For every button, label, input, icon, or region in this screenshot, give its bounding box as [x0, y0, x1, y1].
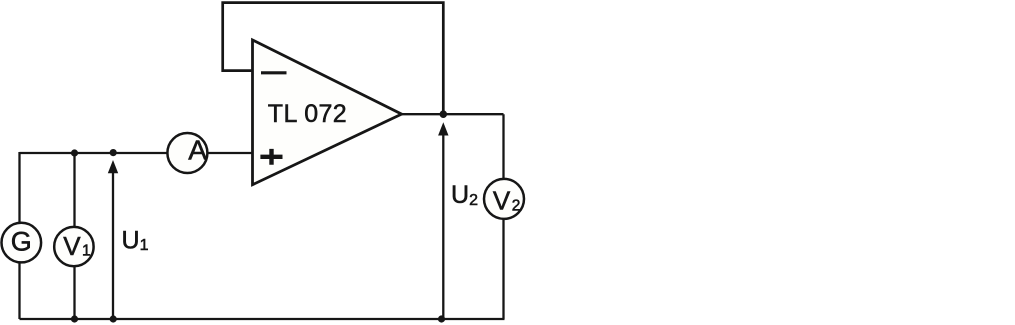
junction node: V1 top — [71, 149, 78, 156]
svg-text:A: A — [188, 135, 207, 166]
voltmeter V1 circle — [54, 227, 93, 266]
ammeter A circle — [167, 133, 207, 173]
wire: non-inverting input rail from left rail to op-amp + input — [20, 152, 253, 154]
junction node: U2 arrow bottom — [438, 315, 445, 322]
generator G circle — [2, 223, 42, 263]
arrow: input voltage U1 indicator — [112, 170, 114, 319]
junction node: V1 bottom — [71, 315, 78, 322]
label: op-amp non-inverting input plus sign — [260, 149, 282, 165]
svg-text:G: G — [11, 227, 32, 257]
wire: feedback loop from output node to inverting input — [223, 3, 444, 114]
wire: voltmeter V1 branch — [73, 153, 75, 319]
junction node: op-amp output — [440, 110, 448, 118]
wire: voltmeter V2 branch vertical — [502, 114, 504, 319]
op-amp U1 TL 072 triangle — [253, 40, 402, 185]
wire: op-amp output to V2 branch — [402, 113, 504, 115]
wire: bottom return rail — [20, 318, 505, 320]
arrow: output voltage U2 indicator — [442, 132, 444, 319]
wire: left vertical branch (generator branch) — [18, 152, 20, 319]
junction node: U1 arrow bottom — [110, 315, 117, 322]
voltmeter V2 circle — [484, 179, 524, 219]
svg-text:TL 072: TL 072 — [268, 100, 347, 128]
svg-text:U1: U1 — [122, 226, 149, 254]
label: op-amp inverting input minus sign — [261, 71, 287, 74]
svg-text:U2: U2 — [451, 181, 478, 209]
junction node: U1 arrow top — [110, 149, 117, 156]
